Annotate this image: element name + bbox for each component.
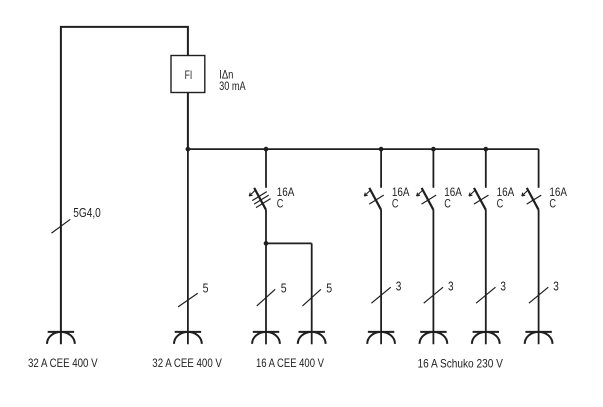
svg-text:16 A CEE 400 V: 16 A CEE 400 V	[256, 356, 324, 370]
svg-text:30 mA: 30 mA	[219, 79, 246, 93]
svg-text:5: 5	[203, 280, 209, 295]
svg-text:3: 3	[448, 279, 454, 294]
svg-text:16 A Schuko 230 V: 16 A Schuko 230 V	[418, 356, 503, 370]
svg-text:5G4,0: 5G4,0	[73, 205, 101, 220]
svg-text:C: C	[277, 197, 284, 211]
svg-text:3: 3	[553, 279, 559, 294]
svg-text:C: C	[497, 197, 504, 211]
svg-text:32 A CEE 400 V: 32 A CEE 400 V	[28, 356, 98, 370]
svg-text:3: 3	[396, 279, 402, 294]
svg-text:32 A CEE 400 V: 32 A CEE 400 V	[152, 356, 222, 370]
svg-text:5: 5	[281, 280, 287, 295]
svg-text:C: C	[444, 197, 451, 211]
svg-text:5: 5	[326, 280, 332, 295]
svg-text:C: C	[549, 197, 556, 211]
svg-text:FI: FI	[185, 68, 193, 82]
svg-text:3: 3	[500, 279, 506, 294]
svg-text:C: C	[392, 197, 399, 211]
